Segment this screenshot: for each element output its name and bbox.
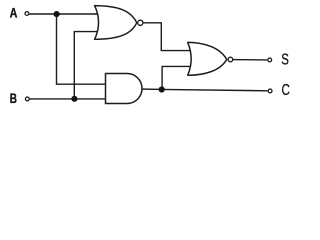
junction dot on C line bbox=[159, 86, 165, 92]
svg-text:A: A bbox=[10, 5, 18, 20]
AND gate G2 bbox=[106, 74, 143, 104]
terminal A bbox=[25, 12, 29, 16]
junction dot on B line bbox=[71, 96, 77, 102]
NOR gate G3 bbox=[188, 42, 233, 75]
wire AND output / C line bbox=[138, 89, 268, 91]
terminal C bbox=[268, 89, 272, 93]
svg-text:S: S bbox=[281, 51, 289, 68]
wire B input bbox=[28, 98, 107, 100]
wire C junction up to NOR G3 bottom input bbox=[162, 66, 192, 89]
terminal S bbox=[268, 58, 272, 62]
wire A branch to AND gate bbox=[57, 14, 108, 84]
wire NOR G3 output to S terminal bbox=[229, 59, 267, 61]
wire NOR G1 output to NOR G3 top input bbox=[139, 23, 192, 51]
NOR gate G1 bbox=[95, 6, 143, 40]
wire A input bbox=[27, 13, 99, 15]
terminal B bbox=[25, 97, 29, 101]
svg-text:C: C bbox=[282, 80, 290, 98]
junction dot on A line bbox=[54, 11, 60, 17]
wire B branch to NOR gate G1 bbox=[74, 32, 99, 99]
svg-text:B: B bbox=[10, 90, 18, 106]
